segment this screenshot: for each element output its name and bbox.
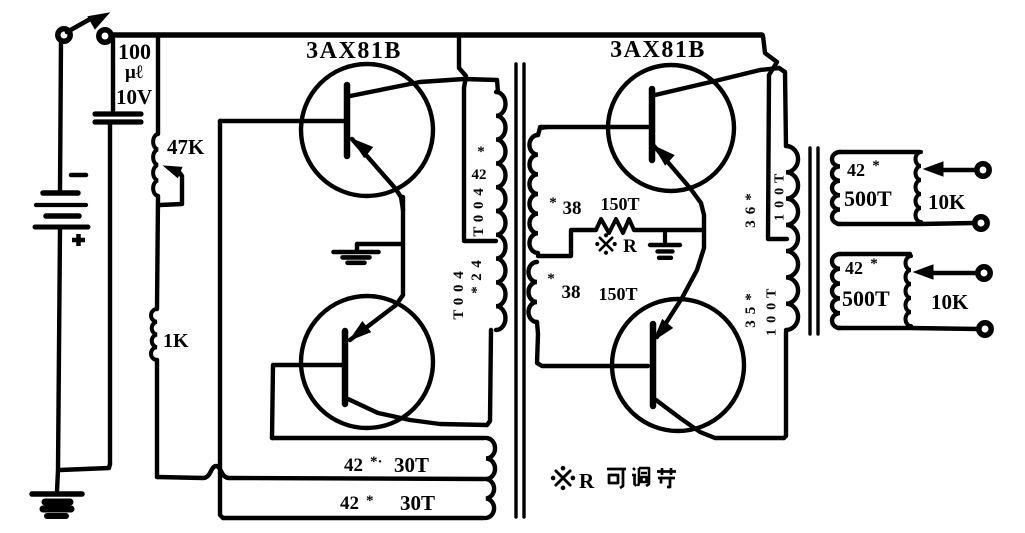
battery B1 plate 4 long bbox=[35, 225, 88, 230]
resistor R3 adjustable body bbox=[596, 219, 634, 233]
svg-text:1: 1 bbox=[773, 214, 788, 221]
label R3 mark bbox=[600, 238, 613, 251]
svg-text:T: T bbox=[471, 227, 487, 237]
wire right ground stem bbox=[663, 230, 667, 243]
svg-text:150T: 150T bbox=[598, 284, 637, 304]
wire T2 sec lower top edge bbox=[840, 252, 910, 256]
svg-text:3: 3 bbox=[743, 320, 759, 328]
transformer T2 secondary upper coil 500T bbox=[832, 152, 840, 224]
wire capacitor bottom lead bbox=[108, 124, 112, 464]
wire T2 sec upper bottom edge bbox=[838, 223, 974, 224]
terminal upper output bottom bbox=[975, 217, 987, 229]
svg-text:*: * bbox=[366, 493, 374, 509]
wire bias branch top bbox=[156, 38, 160, 134]
svg-text:3: 3 bbox=[743, 220, 759, 228]
svg-text:0: 0 bbox=[765, 303, 780, 310]
wire Q1 collector bbox=[350, 79, 498, 96]
wire T2 sec upper top edge bbox=[840, 150, 920, 154]
wire feedback common with hop bbox=[157, 466, 484, 479]
transistor Q3 base bar bbox=[649, 89, 656, 160]
svg-text:2: 2 bbox=[469, 273, 485, 281]
svg-text:*: * bbox=[469, 286, 485, 294]
wire T2 sec lower bottom edge bbox=[838, 328, 978, 329]
resistor R1 47K body bbox=[153, 134, 158, 196]
capacitor C1 top plate bbox=[95, 111, 141, 116]
svg-text:42: 42 bbox=[340, 493, 359, 514]
svg-text:0: 0 bbox=[471, 215, 487, 223]
note R adjustable mark bbox=[556, 471, 570, 485]
transformer T2 core line 1 bbox=[808, 148, 811, 334]
wire T1 primary center tap bbox=[464, 239, 496, 243]
pot upper wiper arrow bbox=[924, 162, 943, 176]
transistor Q4 3AX81B circle bbox=[612, 299, 744, 431]
wire T2 primary center tap bbox=[768, 237, 787, 241]
battery B1 plate 2 long bbox=[36, 203, 86, 207]
wire feedback winding A top bbox=[272, 436, 484, 440]
transistor Q2 emitter arrow bbox=[350, 322, 370, 340]
svg-text:1K: 1K bbox=[163, 330, 189, 352]
wire Q3 collector bbox=[655, 68, 779, 95]
transformer T2 secondary lower coil 500T bbox=[832, 254, 840, 328]
battery B1 plate 1 short bbox=[43, 190, 78, 196]
terminal lower output bottom bbox=[979, 323, 991, 335]
wire Q2 emitter bbox=[350, 295, 403, 340]
svg-text:*: * bbox=[743, 193, 759, 201]
ground mid (Q1 Q2 emitters) bbox=[355, 244, 359, 250]
battery B1 plus sign bbox=[72, 234, 85, 246]
svg-text:38: 38 bbox=[563, 198, 582, 219]
wire bias branch bottom bbox=[155, 360, 159, 477]
wire battery negative lead bbox=[57, 229, 60, 491]
wire R3 to emitter junction bbox=[634, 228, 703, 232]
svg-text:0: 0 bbox=[765, 316, 780, 323]
wire lower wiper lead bbox=[931, 271, 977, 275]
switch S1 arrow bbox=[88, 13, 109, 29]
resistor R1 wiper wire bbox=[160, 172, 182, 205]
svg-text:150T: 150T bbox=[600, 194, 639, 214]
note hanzi jie bbox=[657, 468, 676, 487]
battery B1 minus sign bbox=[71, 173, 86, 178]
terminal upper output top bbox=[977, 164, 989, 176]
wire feedback winding B bottom bbox=[223, 516, 484, 520]
wire Q2 base bbox=[272, 365, 342, 438]
svg-text:3AX81B: 3AX81B bbox=[610, 37, 706, 63]
svg-text:3AX81B: 3AX81B bbox=[306, 38, 402, 64]
transistor Q3 3AX81B circle bbox=[608, 65, 734, 191]
svg-text:T: T bbox=[765, 288, 780, 298]
transistor Q1 3AX81B circle bbox=[301, 64, 433, 196]
note hanzi ke bbox=[607, 469, 626, 488]
svg-text:R: R bbox=[623, 236, 637, 257]
svg-text:0: 0 bbox=[773, 201, 788, 208]
svg-text:42: 42 bbox=[845, 258, 863, 278]
transformer T1 primary coil 400T+400T bbox=[496, 92, 506, 330]
transistor Q4 emitter arrow bbox=[654, 320, 672, 340]
svg-text:0: 0 bbox=[773, 188, 788, 195]
wire Q1 base bbox=[220, 119, 344, 123]
svg-text:4: 4 bbox=[451, 271, 467, 279]
wire T1 center tap to R bbox=[571, 228, 596, 232]
transformer T1 secondary coil lower 150T bbox=[529, 262, 538, 322]
wire T1 secondary upper top corner bbox=[538, 127, 548, 135]
pot lower 10K body bbox=[906, 256, 912, 326]
wire Q3-Q4 emitter vertical bbox=[657, 230, 704, 337]
svg-text:0: 0 bbox=[471, 202, 487, 210]
svg-text:1: 1 bbox=[765, 329, 780, 336]
wire battery positive lead bbox=[60, 41, 61, 190]
transistor Q3 emitter arrow bbox=[654, 146, 674, 165]
wire Q1 emitter bbox=[352, 139, 403, 210]
svg-text:0: 0 bbox=[451, 285, 467, 293]
battery B1 plate 3 short bbox=[46, 213, 79, 219]
wire Q4 collector bbox=[656, 400, 784, 438]
wire T1 secondary center tap step bbox=[538, 231, 571, 256]
transformer T1 feedback coil B 30T bbox=[486, 479, 494, 518]
switch S1 lever bbox=[67, 18, 92, 32]
wire T2 supply drop with hop bbox=[763, 36, 777, 237]
svg-text:500T: 500T bbox=[844, 186, 892, 211]
wire Q3 emitter bbox=[654, 146, 704, 230]
svg-text:10V: 10V bbox=[116, 85, 152, 109]
switch S1 terminal left bbox=[58, 29, 70, 41]
svg-text:47K: 47K bbox=[167, 135, 205, 159]
pot lower wiper arrow bbox=[914, 265, 933, 279]
terminal lower output top bbox=[978, 267, 990, 279]
wire T1 secondary lower to Q4 base bbox=[537, 322, 648, 366]
svg-text:500T: 500T bbox=[842, 286, 890, 311]
svg-text:42: 42 bbox=[472, 167, 487, 183]
transistor Q2 base bar bbox=[342, 331, 349, 404]
svg-text:4: 4 bbox=[469, 260, 485, 268]
wire Q1 base feed vertical bbox=[220, 121, 223, 518]
transformer T1 feedback coil A 30T bbox=[486, 438, 495, 479]
transistor Q1 base bar bbox=[344, 85, 351, 156]
svg-text:*·: *· bbox=[370, 454, 383, 470]
wire top supply bus bbox=[111, 32, 762, 37]
wire Q2 collector bbox=[348, 399, 487, 425]
transformer T1 secondary coil upper 150T bbox=[529, 135, 538, 253]
svg-text:30T: 30T bbox=[400, 491, 435, 515]
svg-text:100: 100 bbox=[118, 39, 151, 64]
svg-text:*: * bbox=[872, 158, 880, 174]
svg-text:0: 0 bbox=[451, 298, 467, 306]
transformer T1 core line 2 bbox=[522, 64, 525, 517]
svg-text:42: 42 bbox=[344, 455, 363, 476]
svg-text:4: 4 bbox=[471, 188, 487, 196]
svg-text:μℓ: μℓ bbox=[125, 62, 143, 83]
wire T1 supply drop with hop bbox=[459, 37, 466, 239]
transformer T2 primary coil 100T+100T bbox=[786, 146, 798, 330]
ground right (R3) bbox=[650, 243, 680, 247]
svg-text:*: * bbox=[549, 195, 557, 211]
svg-text:10K: 10K bbox=[931, 290, 969, 314]
svg-text:10K: 10K bbox=[928, 190, 966, 214]
note hanzi diao bbox=[632, 468, 649, 486]
svg-text:38: 38 bbox=[562, 282, 581, 303]
wire capacitor return bbox=[60, 464, 110, 470]
transistor Q4 base bar bbox=[650, 324, 657, 406]
svg-text:T: T bbox=[451, 310, 467, 320]
resistor R2 1K body bbox=[151, 309, 157, 360]
wire mid ground tap bbox=[357, 242, 403, 246]
svg-text:*: * bbox=[870, 256, 878, 272]
wire T1 primary bottom to Q2 collector bbox=[487, 330, 491, 425]
wire T2 collector to primary top bbox=[779, 68, 786, 146]
svg-text:6: 6 bbox=[743, 206, 759, 214]
wire T1 secondary upper to Q3 base bbox=[540, 125, 648, 129]
transformer T1 core line 1 bbox=[514, 64, 517, 517]
transformer T2 core line 2 bbox=[816, 148, 819, 334]
wire bias branch middle bbox=[157, 196, 158, 309]
svg-text:R: R bbox=[579, 469, 595, 493]
resistor R1 wiper arrow bbox=[164, 166, 182, 178]
switch S1 terminal right bbox=[99, 30, 111, 42]
pot upper 10K body bbox=[916, 152, 922, 222]
ground main (battery) bbox=[32, 491, 82, 497]
wire T2 primary bottom to Q4 collector bbox=[784, 332, 786, 438]
svg-text:*: * bbox=[743, 293, 759, 301]
svg-text:42: 42 bbox=[847, 160, 865, 180]
svg-text:*: * bbox=[547, 271, 555, 287]
svg-text:*: * bbox=[477, 144, 485, 160]
wire capacitor top lead bbox=[111, 39, 115, 111]
capacitor C1 bottom plate bbox=[95, 119, 141, 124]
wire upper wiper lead bbox=[941, 168, 976, 172]
svg-text:T: T bbox=[773, 173, 788, 183]
svg-text:5: 5 bbox=[743, 307, 759, 315]
svg-text:30T: 30T bbox=[394, 453, 429, 477]
transistor Q2 3AX81B circle bbox=[301, 296, 433, 428]
wire Q1-Q2 emitter vertical bbox=[401, 197, 405, 295]
transistor Q1 emitter arrow bbox=[352, 139, 372, 157]
